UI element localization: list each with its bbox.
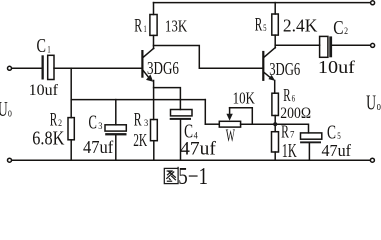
resistor R3 [151, 120, 158, 141]
transistor Q1 emitter arrowhead [146, 74, 153, 81]
svg-text:2: 2 [344, 27, 348, 37]
svg-text:1: 1 [47, 46, 51, 56]
wire emitter branch to C4 [154, 88, 181, 110]
resistor R5 [272, 14, 279, 35]
pot wiper stem [229, 108, 231, 115]
svg-text:1: 1 [144, 25, 147, 35]
wire R3 to bottom rail [153, 141, 155, 161]
transistor Q1 base bar [141, 51, 143, 77]
label R3 [134, 109, 149, 130]
svg-text:R: R [134, 16, 142, 37]
capacitor C4 [171, 110, 193, 116]
wire coupling collector to Q2 base [154, 46, 264, 69]
resistor R2 [68, 118, 74, 140]
label R1 [134, 16, 147, 37]
wire R5 column top [274, 3, 276, 14]
svg-text:13K: 13K [165, 16, 188, 35]
svg-text:47uf: 47uf [180, 138, 216, 159]
wire junction to R7 [274, 124, 276, 132]
capacitor C1 [42, 55, 44, 79]
pot wiper arrowhead [226, 114, 232, 121]
wire to pot left [205, 123, 219, 125]
svg-text:3DG6: 3DG6 [269, 59, 300, 79]
svg-text:47uf: 47uf [83, 137, 113, 157]
transistor Q1 collector diagonal [143, 48, 154, 57]
caption tu character [164, 167, 178, 184]
bottom-left terminal [8, 158, 12, 162]
wire Q1 emitter column [153, 81, 155, 120]
svg-text:o: o [377, 98, 381, 113]
label C1 [37, 36, 51, 57]
transistor Q2 emitter arrowhead [268, 75, 275, 81]
resistor R1 [150, 15, 157, 36]
svg-text:R: R [134, 109, 142, 130]
wire node to pot W [204, 100, 206, 125]
svg-text:C: C [89, 111, 97, 133]
svg-text:6: 6 [292, 95, 296, 105]
svg-text:o: o [8, 105, 12, 120]
wire R5 to Q2 collector junction [274, 35, 276, 48]
svg-text:2K: 2K [133, 130, 147, 150]
svg-text:C: C [37, 36, 47, 57]
wire C2 to output terminal [332, 44, 370, 46]
svg-text:47uf: 47uf [322, 141, 352, 160]
wire C4 to bottom rail [180, 120, 182, 160]
wire R6 to junction dot [274, 116, 276, 125]
svg-text:U: U [366, 91, 376, 115]
svg-text:5: 5 [263, 24, 267, 34]
wire junction to C5 [275, 124, 308, 133]
label R6 [283, 85, 295, 105]
svg-text:10K: 10K [233, 89, 255, 108]
wire R1 to collector junction [153, 35, 155, 48]
svg-text:10uf: 10uf [318, 57, 355, 77]
capacitor C5 [301, 133, 322, 139]
wire pot right to junction [241, 123, 276, 125]
wire C5 to bottom rail [308, 143, 310, 160]
resistor R7 [272, 132, 279, 152]
svg-text:10uf: 10uf [29, 82, 59, 99]
label R5 [255, 15, 267, 36]
transistor Q2 collector diagonal [264, 48, 275, 58]
svg-text:C: C [333, 18, 343, 39]
svg-text:R: R [283, 85, 290, 105]
transistor Q2 emitter diagonal [264, 72, 272, 78]
svg-text:3DG6: 3DG6 [147, 58, 179, 78]
svg-text:U: U [0, 97, 8, 121]
wire collector junction to C2 [275, 44, 319, 46]
capacitor C2 [320, 36, 328, 57]
junction dot [273, 122, 277, 126]
wire C3 to bottom rail [115, 135, 117, 160]
svg-text:3: 3 [144, 119, 148, 129]
wire R1 column top [153, 3, 155, 15]
wire input to C1 [12, 67, 42, 69]
svg-text:5−1: 5−1 [178, 164, 208, 186]
svg-text:200Ω: 200Ω [280, 105, 311, 122]
label U0 right [366, 91, 381, 115]
top-right terminal [371, 1, 375, 5]
svg-text:3: 3 [98, 122, 102, 132]
wire mid horizontal node [71, 99, 205, 101]
label C4 [184, 122, 198, 143]
resistor R6 [272, 93, 279, 115]
label R7 [281, 121, 295, 141]
svg-text:R: R [281, 121, 289, 141]
label C2 [333, 18, 348, 39]
label C5 [327, 121, 341, 143]
wire C3 column [115, 100, 117, 125]
wire C1 to Q1 base [54, 67, 142, 69]
label C3 [89, 111, 103, 133]
svg-text:7: 7 [290, 131, 295, 141]
label U0 left [0, 97, 12, 121]
wire Q2 emitter to R6 [274, 81, 276, 94]
potentiometer W box [219, 121, 240, 127]
bottom-right terminal [370, 158, 374, 162]
svg-text:R: R [255, 15, 263, 36]
input terminal [8, 66, 12, 70]
wire R2 column upper [70, 68, 72, 117]
wire R7 to bottom rail [274, 152, 276, 160]
bottom rail [12, 159, 370, 161]
svg-text:2.4K: 2.4K [283, 16, 317, 36]
svg-text:C: C [327, 121, 336, 143]
output terminal [371, 43, 375, 47]
pot wiper loop wire [230, 108, 253, 125]
wire R2 to bottom rail [70, 140, 72, 160]
svg-text:6.8K: 6.8K [32, 128, 64, 150]
top rail [154, 2, 371, 4]
transistor Q1 emitter diagonal [143, 70, 151, 79]
label R2 [50, 110, 63, 131]
svg-text:W: W [226, 126, 236, 146]
svg-text:1K: 1K [282, 141, 297, 162]
capacitor C3 [105, 125, 126, 131]
transistor Q2 base bar [262, 52, 264, 80]
